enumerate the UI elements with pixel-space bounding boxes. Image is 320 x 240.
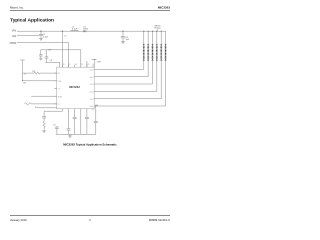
svg-text:MIC3263: MIC3263 [158, 5, 171, 9]
svg-text:4.7µF: 4.7µF [43, 36, 49, 38]
svg-text:OVP: OVP [97, 62, 102, 64]
svg-text:MIC3263 Typical Application Sc: MIC3263 Typical Application Schematic [63, 142, 117, 146]
svg-text:Typical Application: Typical Application [10, 17, 54, 23]
svg-text:Micrel, Inc.: Micrel, Inc. [10, 5, 24, 9]
svg-text:4.7µH: 4.7µH [72, 29, 78, 31]
svg-text:WLED: WLED [154, 26, 161, 28]
